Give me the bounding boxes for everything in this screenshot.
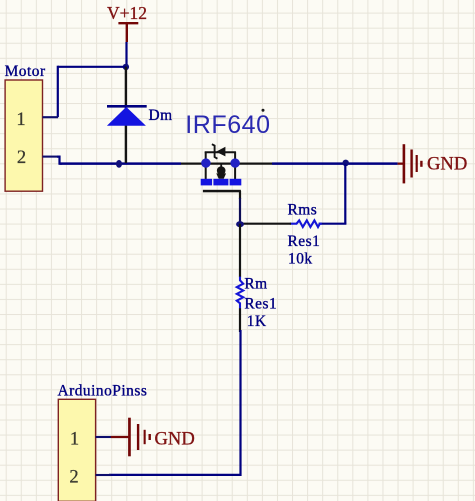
channel pad middle (213, 179, 228, 186)
junction dot right rail (342, 160, 349, 167)
connector ArduinoPinss body (58, 399, 95, 501)
diode Dm triangle (107, 107, 146, 126)
body diode loop top line (205, 151, 236, 153)
wire V+12 to junction (125, 42, 127, 67)
wire gate junction down to Rm (239, 224, 241, 278)
wire motor pin 2 jog to rail (57, 157, 62, 164)
channel pad right (230, 179, 242, 186)
wire diode branch (vertical black) (125, 67, 127, 163)
gate bar (203, 190, 241, 193)
wire source to GND junction (272, 162, 398, 165)
source stub (right vertical) (234, 152, 236, 179)
wire junction to motor pin 1 (horizontal) (58, 66, 127, 68)
channel pad left (201, 179, 212, 186)
junction dot drain (201, 158, 210, 167)
Motor pin 1 stub (43, 116, 59, 118)
svg-text:1: 1 (70, 430, 79, 450)
svg-text:ArduinoPinss: ArduinoPinss (58, 383, 148, 400)
wire Rms left lead (black) (240, 223, 291, 225)
svg-text:2: 2 (17, 148, 26, 168)
Motor pin 2 stub (43, 156, 59, 158)
junction dot source (230, 158, 239, 167)
svg-text:V+12: V+12 (107, 3, 147, 23)
wire gate bar to junction (239, 191, 241, 199)
diode Dm cathode bar (107, 105, 147, 108)
power port V+12 bar symbol (118, 23, 138, 42)
svg-text:GND: GND (427, 154, 467, 175)
svg-text:GND: GND (155, 429, 195, 450)
junction dot gate node (236, 221, 244, 227)
svg-text:10k: 10k (288, 251, 313, 268)
wire pin1 to gnd (111, 436, 129, 438)
wire down to motor pin 1 (vertical) (57, 66, 59, 118)
svg-text:Res1: Res1 (244, 295, 277, 312)
drain stub (left vertical) (205, 152, 207, 179)
wire Rm to arduino pin2 (blue) (109, 330, 241, 475)
junction dot on rail left (116, 160, 122, 168)
svg-text:Rm: Rm (244, 275, 267, 292)
junction dot at V+12 node (123, 64, 129, 70)
svg-text:Res1: Res1 (288, 233, 321, 250)
svg-text:1: 1 (16, 110, 25, 130)
resistor Rms zigzag (290, 220, 322, 227)
body diode cathode bar with hooks (212, 144, 218, 159)
svg-text:2: 2 (69, 468, 78, 488)
arrow trapezoid (216, 173, 226, 178)
stray dot near IRF640 (262, 109, 265, 112)
wire right junction down (344, 164, 346, 224)
transistor Q (IRF640) symbol (201, 144, 242, 192)
svg-text:Motor: Motor (5, 63, 46, 80)
ArduinoPinss pin 2 stub (96, 474, 111, 476)
arrow circle (217, 166, 226, 175)
wire Rms right lead (319, 223, 347, 225)
svg-text:IRF640: IRF640 (185, 111, 270, 139)
gate arrow stub from rail (220, 164, 222, 169)
ground GND bottom symbol (128, 418, 151, 457)
wire main rail (motor pin2 / drain / source / gnd) (60, 162, 182, 165)
ArduinoPinss pin 1 stub (96, 436, 111, 438)
svg-text:1K: 1K (247, 313, 267, 330)
svg-text:Rms: Rms (288, 201, 318, 218)
transistor drain/source pins (black) (181, 162, 272, 164)
wire Rm down (black part) (239, 308, 241, 332)
body diode triangle (216, 147, 225, 157)
svg-text:Dm: Dm (149, 107, 173, 124)
wire gate down (navy part) (239, 198, 241, 224)
ground GND right symbol (398, 144, 423, 183)
resistor Rm zigzag (237, 277, 243, 309)
connector Motor body (5, 80, 42, 191)
